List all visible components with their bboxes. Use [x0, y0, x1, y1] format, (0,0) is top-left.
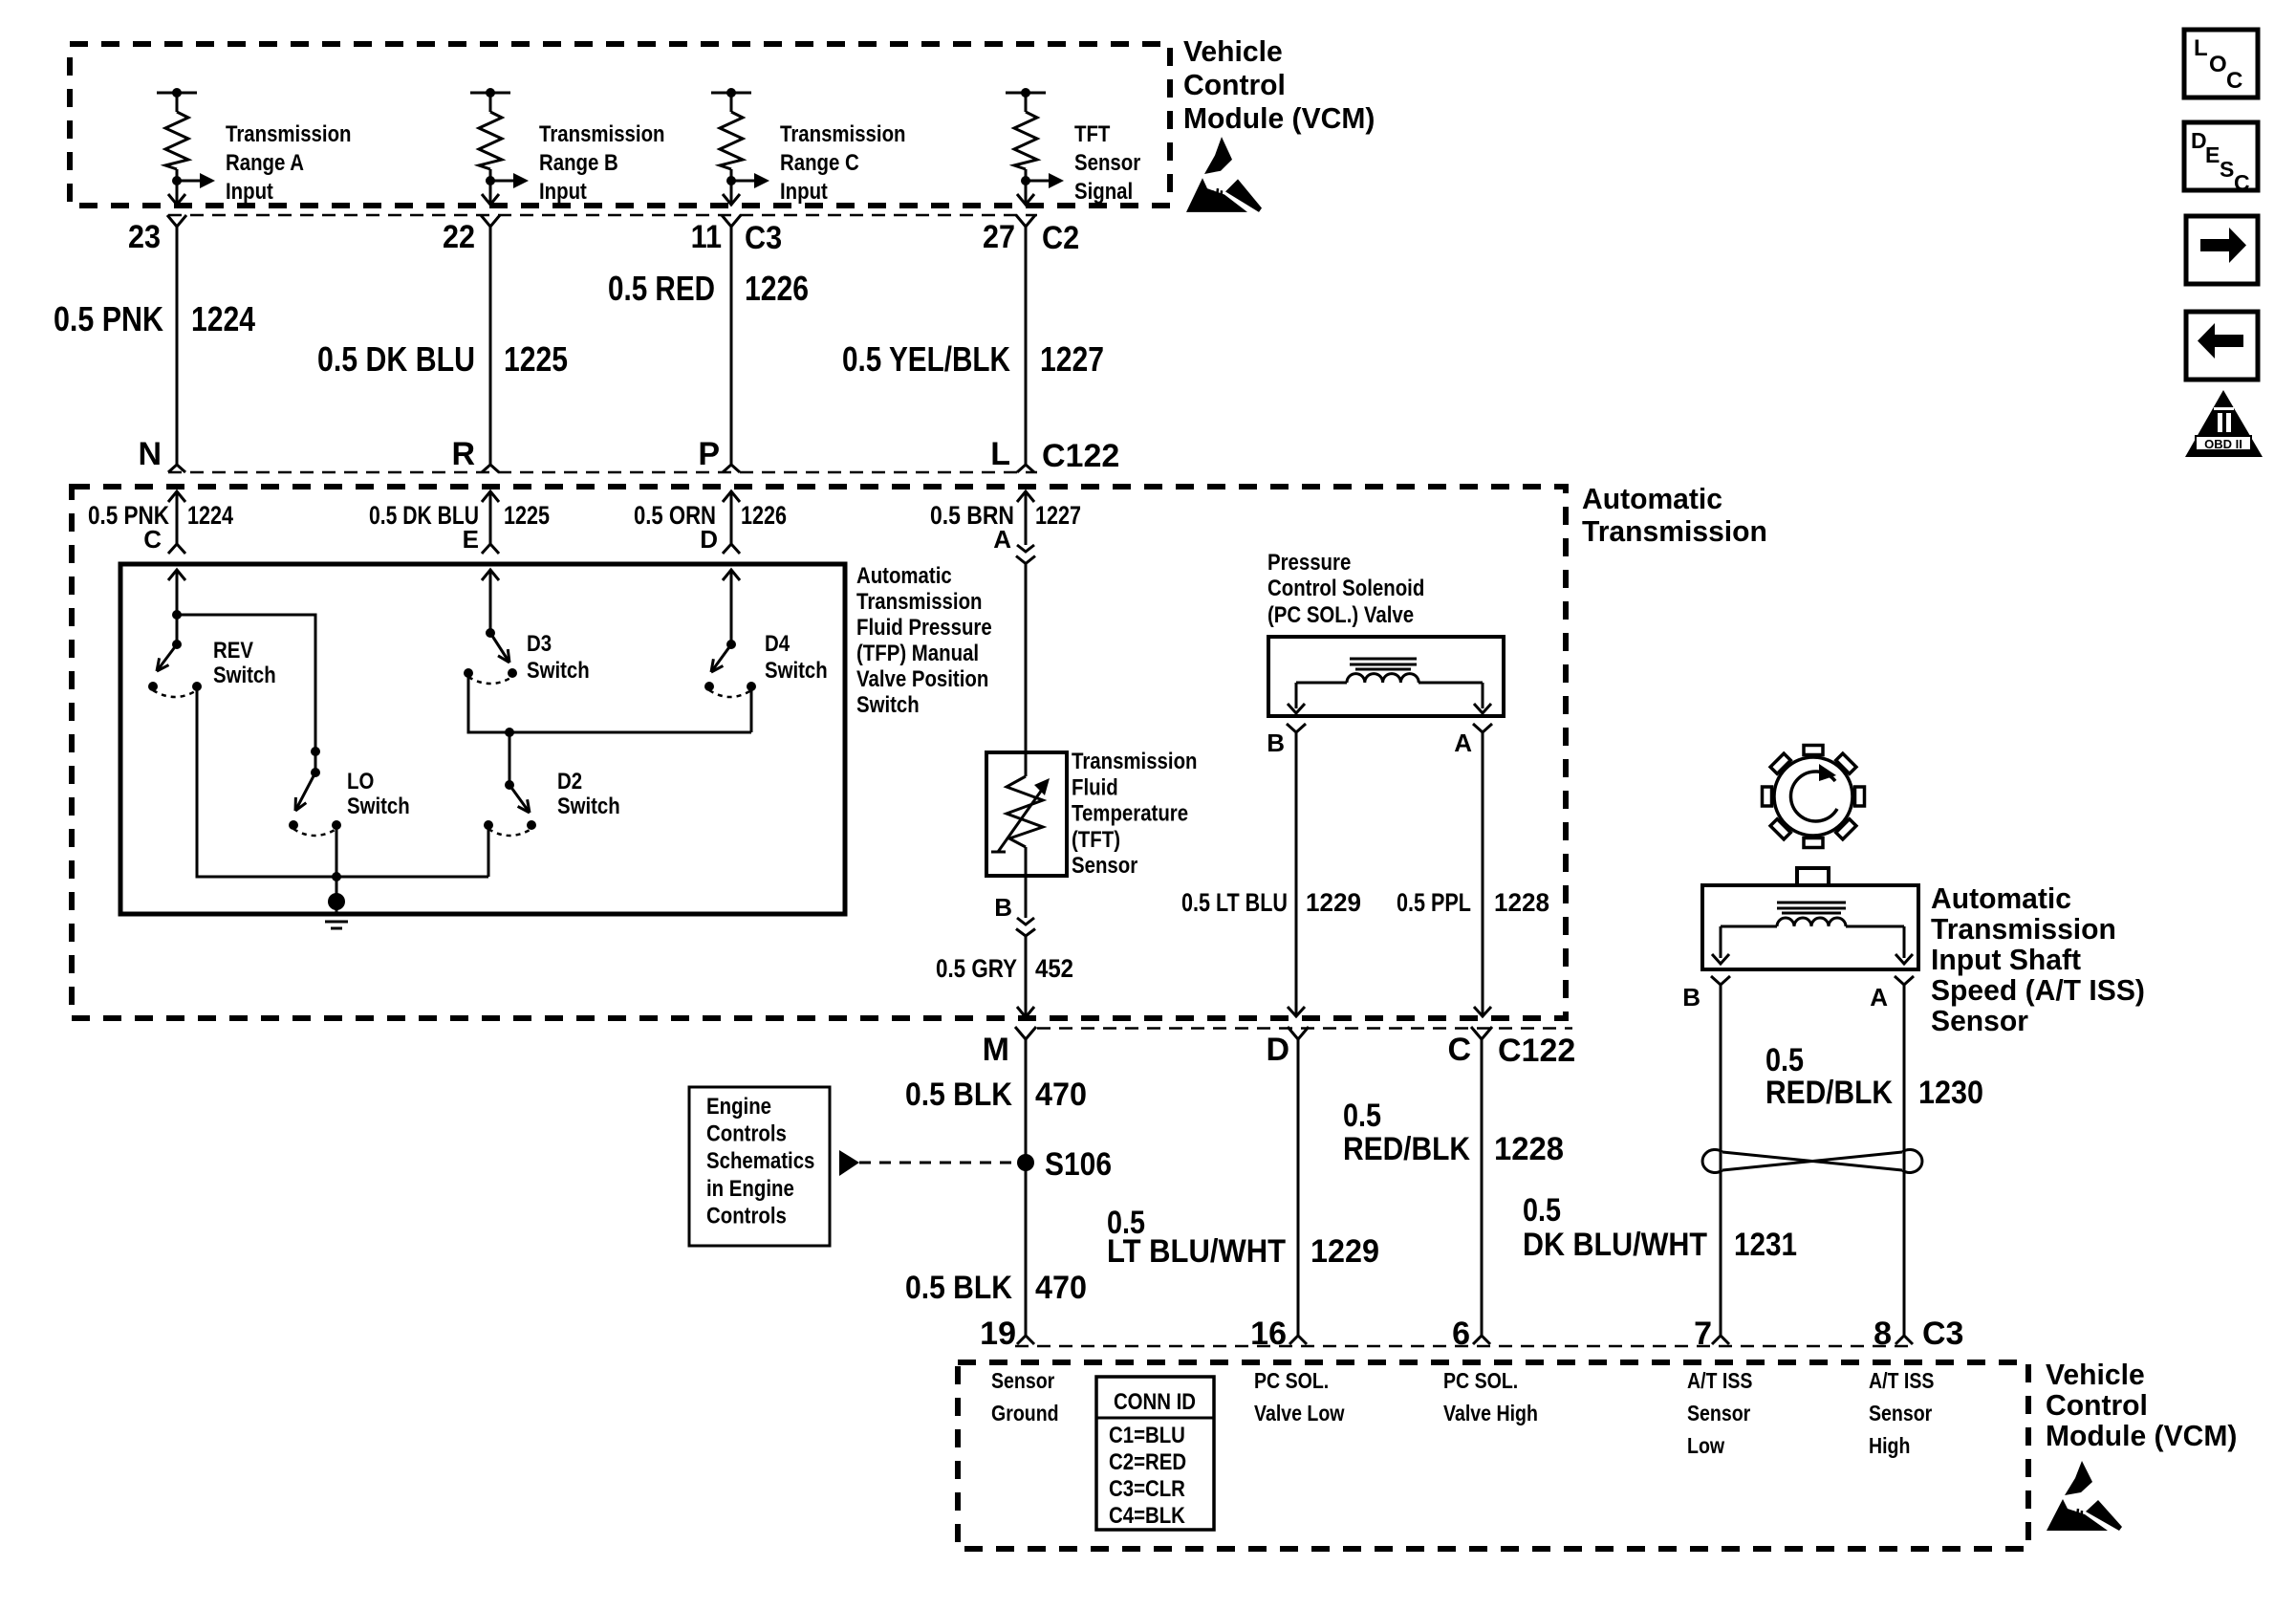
svg-text:0.5: 0.5: [1765, 1042, 1804, 1078]
reference arrow (Engine Controls): [839, 1150, 859, 1176]
connector spread at TFP switch box: [723, 544, 740, 554]
svg-text:Transmission: Transmission: [226, 121, 352, 147]
resistor: TFT Sensor Signal (VCM internal): [1006, 88, 1064, 205]
pin B of TFT sensor: [1025, 876, 1028, 918]
svg-text:1225: 1225: [504, 501, 550, 530]
icon: DESC box: [2184, 122, 2258, 195]
svg-text:Fluid: Fluid: [1072, 774, 1118, 800]
pin arrow at AT box bottom (M): [1017, 1007, 1034, 1017]
wire: LO common to ground: [336, 825, 338, 899]
ESD sensitivity triangle icon (bottom VCM): [2047, 1461, 2122, 1531]
svg-text:8: 8: [1874, 1316, 1892, 1352]
svg-text:1228: 1228: [1494, 888, 1549, 917]
pin B of PC solenoid: [1287, 724, 1306, 732]
wire circuit 1225 (VCM to C122): [489, 227, 492, 465]
svg-text:1230: 1230: [1918, 1075, 1983, 1111]
dashed reference lead to S106: [859, 1162, 1013, 1164]
switch LO: [289, 768, 341, 836]
svg-text:M: M: [983, 1032, 1009, 1068]
svg-text:DK BLU/WHT: DK BLU/WHT: [1523, 1227, 1707, 1263]
svg-text:Control Solenoid: Control Solenoid: [1267, 576, 1424, 601]
svg-text:Input Shaft: Input Shaft: [1931, 943, 2081, 976]
svg-text:D: D: [1266, 1032, 1289, 1068]
component box: Transmission Fluid Temperature (TFT) Sensor: [986, 752, 1067, 876]
svg-text:Transmission: Transmission: [1072, 749, 1198, 774]
svg-text:Input: Input: [539, 179, 587, 205]
svg-text:D4: D4: [765, 631, 791, 657]
svg-text:A: A: [1454, 729, 1472, 757]
svg-text:1225: 1225: [504, 339, 568, 379]
svg-text:1231: 1231: [1734, 1227, 1797, 1263]
wire: circuit 1227 to TFT sensor: [1025, 564, 1028, 753]
svg-text:Valve Low: Valve Low: [1254, 1401, 1345, 1425]
wire: circuit 470 (0.5 BLK) sensor ground: [1025, 1039, 1028, 1336]
svg-text:Pressure: Pressure: [1267, 550, 1351, 576]
svg-text:Input: Input: [226, 179, 273, 205]
svg-text:Sensor: Sensor: [1931, 1004, 2028, 1037]
svg-text:1224: 1224: [191, 299, 255, 338]
svg-text:Valve Position: Valve Position: [856, 666, 988, 692]
component box: Automatic Transmission Fluid Pressure (TFP) Manual Valve Position Switch: [120, 564, 845, 914]
connector spread at TFP switch box: [482, 544, 499, 554]
svg-text:P: P: [698, 436, 720, 472]
svg-text:Automatic: Automatic: [856, 563, 952, 589]
splice S106: [1017, 1154, 1034, 1171]
svg-text:Temperature: Temperature: [1072, 801, 1188, 827]
svg-text:22: 22: [443, 219, 475, 255]
connector pin arrow into AT box (C): [168, 491, 185, 502]
svg-text:C1=BLU: C1=BLU: [1109, 1423, 1185, 1448]
wire: D2 contact down to common bus: [487, 825, 490, 877]
svg-text:Transmission: Transmission: [1582, 514, 1767, 548]
svg-text:REV: REV: [213, 638, 253, 664]
wire: D4 contact down to bus: [750, 686, 753, 732]
wire: REV branch to LO switch: [177, 615, 315, 772]
svg-text:27: 27: [983, 219, 1015, 255]
wire: circuit 1231: [1903, 985, 1906, 1336]
resistor: Transmission Range B Input (VCM internal): [470, 88, 529, 205]
switch REV (pin C circuit): [148, 570, 202, 697]
svg-text:1226: 1226: [741, 501, 787, 530]
pickup coil (A/T ISS): [1712, 903, 1913, 964]
svg-text:Transmission: Transmission: [539, 121, 665, 147]
svg-text:1227: 1227: [1035, 501, 1081, 530]
gear icon (A/T ISS reluctor): [1763, 746, 1865, 848]
svg-text:C3=CLR: C3=CLR: [1109, 1476, 1185, 1502]
wire: circuit 1229 (0.5 LT BLU): [1295, 732, 1298, 1016]
svg-text:Range C: Range C: [780, 150, 859, 176]
svg-text:PC SOL.: PC SOL.: [1443, 1368, 1518, 1393]
svg-text:Switch: Switch: [527, 658, 590, 684]
svg-text:19: 19: [980, 1316, 1016, 1352]
connector pin 16 (VCM bottom): [1289, 1336, 1307, 1344]
svg-text:A/T ISS: A/T ISS: [1869, 1368, 1934, 1393]
connector pin M (C122 bottom): [1015, 1027, 1036, 1039]
pin A of PC solenoid: [1473, 724, 1492, 732]
svg-text:C2: C2: [1042, 220, 1079, 256]
connector pin arrow into AT box (E): [482, 491, 499, 502]
svg-text:Vehicle: Vehicle: [1183, 34, 1283, 68]
svg-text:LO: LO: [347, 769, 374, 794]
ESD sensitivity triangle icon (top VCM): [1186, 137, 1262, 212]
component box: Engine Controls reference: [689, 1087, 830, 1246]
wire: circuit 452 (0.5 GRY): [1025, 936, 1028, 1017]
svg-text:Module (VCM): Module (VCM): [2046, 1419, 2237, 1452]
svg-text:C3: C3: [745, 220, 782, 256]
svg-text:A: A: [1870, 983, 1888, 1012]
svg-text:A: A: [993, 525, 1011, 554]
svg-text:Sensor: Sensor: [1072, 853, 1137, 879]
component box: PC Solenoid Valve: [1268, 637, 1504, 716]
svg-text:0.5 RED: 0.5 RED: [608, 269, 715, 308]
svg-text:1224: 1224: [187, 501, 233, 530]
svg-text:0.5: 0.5: [1343, 1098, 1381, 1134]
svg-text:A/T ISS: A/T ISS: [1687, 1368, 1752, 1393]
svg-text:1228: 1228: [1494, 1131, 1564, 1167]
resistor: Transmission Range A Input (VCM internal): [157, 88, 215, 205]
wire: REV common down: [197, 686, 488, 877]
wire circuit 1227 (VCM to C122): [1025, 227, 1028, 465]
svg-text:Module (VCM): Module (VCM): [1183, 101, 1375, 135]
connector pin 11 (VCM): [722, 215, 741, 227]
svg-text:Controls: Controls: [706, 1121, 787, 1147]
wire: circuit 1229 (0.5 LT BLU/WHT): [1297, 1039, 1300, 1336]
wire: circuit 1228 (0.5 RED/BLK): [1481, 1039, 1484, 1336]
svg-text:Low: Low: [1687, 1433, 1724, 1458]
svg-text:(TFP) Manual: (TFP) Manual: [856, 641, 979, 666]
ground (TFP switch common): [319, 893, 354, 928]
svg-text:Sensor: Sensor: [1869, 1401, 1932, 1425]
svg-text:N: N: [138, 436, 162, 472]
svg-text:0.5 LT BLU: 0.5 LT BLU: [1181, 888, 1288, 917]
svg-text:(PC SOL.) Valve: (PC SOL.) Valve: [1267, 602, 1414, 628]
inline connector B (TFT): [1017, 918, 1034, 925]
svg-text:C122: C122: [1042, 438, 1119, 474]
svg-text:6: 6: [1452, 1316, 1470, 1352]
svg-text:Vehicle: Vehicle: [2046, 1358, 2145, 1391]
svg-text:C: C: [143, 525, 162, 554]
svg-text:S106: S106: [1045, 1146, 1112, 1183]
svg-text:Engine: Engine: [706, 1094, 771, 1120]
svg-text:Transmission: Transmission: [1931, 912, 2116, 946]
svg-text:C3: C3: [1922, 1316, 1963, 1352]
svg-text:(TFT): (TFT): [1072, 827, 1120, 853]
svg-text:D2: D2: [557, 769, 582, 794]
svg-text:Transmission: Transmission: [856, 589, 983, 615]
icon: forward arrow box: [2186, 216, 2258, 284]
svg-text:Control: Control: [1183, 68, 1286, 101]
svg-text:B: B: [1267, 729, 1285, 757]
connector pin C (C122 bottom): [1471, 1027, 1492, 1039]
connector pin 8 (VCM bottom): [1895, 1336, 1913, 1344]
svg-text:0.5 BLK: 0.5 BLK: [905, 1270, 1012, 1306]
svg-text:Fluid Pressure: Fluid Pressure: [856, 615, 992, 641]
connector pin 22 (VCM): [481, 215, 500, 227]
connector line C2/C3 (thin dashed): [168, 214, 1037, 217]
svg-text:D: D: [700, 525, 718, 554]
svg-text:Control: Control: [2046, 1388, 2148, 1422]
svg-text:0.5 PNK: 0.5 PNK: [54, 299, 163, 338]
wire circuit 1226 (VCM to C122): [730, 227, 733, 465]
pin B of A/T ISS sensor: [1711, 976, 1730, 985]
switch D4 (pin D circuit): [704, 570, 756, 697]
svg-text:0.5 DK BLU: 0.5 DK BLU: [317, 339, 475, 379]
svg-text:Speed (A/T ISS): Speed (A/T ISS): [1931, 973, 2145, 1007]
module box: Vehicle Control Module (VCM) top (dashed): [70, 44, 1170, 206]
connector line C122 bottom (thin dashed): [1037, 1027, 1572, 1030]
connector pin arrow into AT box (D): [723, 491, 740, 502]
connector pin L (C122): [1017, 465, 1034, 472]
svg-text:S: S: [2220, 157, 2234, 182]
wire: D3 contact to D2 bus: [468, 673, 751, 732]
svg-text:Switch: Switch: [347, 794, 410, 819]
icon: LOC box: [2184, 30, 2258, 98]
connector pin 23 (VCM): [167, 215, 186, 227]
svg-text:0.5 YEL/BLK: 0.5 YEL/BLK: [842, 339, 1010, 379]
svg-text:C122: C122: [1498, 1033, 1575, 1069]
svg-text:Range A: Range A: [226, 150, 304, 176]
icon: OBD II triangle: [2185, 390, 2263, 457]
svg-text:R: R: [451, 436, 475, 472]
svg-text:L: L: [2194, 35, 2208, 61]
svg-text:Signal: Signal: [1074, 179, 1133, 205]
connector pin R (C122): [482, 465, 499, 472]
svg-text:7: 7: [1694, 1316, 1712, 1352]
svg-text:0.5: 0.5: [1523, 1192, 1561, 1229]
svg-text:RED/BLK: RED/BLK: [1765, 1075, 1893, 1111]
connector pin 27 (VCM): [1016, 215, 1035, 227]
wire: circuit 1230 (0.5 RED/BLK): [1720, 985, 1722, 1336]
svg-text:PC SOL.: PC SOL.: [1254, 1368, 1329, 1393]
svg-text:11: 11: [691, 219, 722, 255]
svg-text:OBD II: OBD II: [2204, 437, 2242, 451]
svg-text:RED/BLK: RED/BLK: [1343, 1131, 1470, 1167]
svg-text:TFT: TFT: [1074, 121, 1111, 147]
svg-text:L: L: [990, 436, 1010, 472]
svg-text:1229: 1229: [1306, 888, 1361, 917]
component box: A/T ISS Sensor: [1702, 885, 1918, 969]
svg-text:C: C: [2234, 170, 2250, 195]
svg-text:Range B: Range B: [539, 150, 618, 176]
icon: back arrow box: [2186, 312, 2258, 380]
switch D3 (pin E circuit): [464, 570, 517, 684]
table: CONN ID: [1096, 1377, 1214, 1530]
svg-text:Sensor: Sensor: [1687, 1401, 1750, 1425]
svg-text:C: C: [1447, 1032, 1471, 1068]
svg-text:0.5 GRY: 0.5 GRY: [936, 954, 1017, 983]
twisted pair symbol (ISS wires): [1702, 1150, 1922, 1173]
connector pin 19 (VCM bottom): [1017, 1336, 1034, 1344]
svg-text:Switch: Switch: [856, 692, 920, 718]
svg-text:0.5 PPL: 0.5 PPL: [1397, 888, 1471, 917]
svg-text:Automatic: Automatic: [1582, 482, 1722, 515]
inline connector A (TFT sensor circuit): [1017, 545, 1034, 552]
svg-text:Sensor: Sensor: [1074, 150, 1140, 176]
svg-text:B: B: [994, 893, 1012, 922]
svg-text:Sensor: Sensor: [991, 1368, 1054, 1393]
svg-text:Switch: Switch: [213, 663, 276, 688]
thermistor symbol (TFT): [991, 752, 1050, 876]
connector pin D (C122 bottom): [1288, 1027, 1309, 1039]
svg-text:C2=RED: C2=RED: [1109, 1449, 1186, 1475]
svg-text:Input: Input: [780, 179, 828, 205]
shaft stub (A/T ISS): [1797, 868, 1829, 885]
connector pin arrow into AT box (A): [1017, 491, 1034, 502]
svg-text:0.5 BLK: 0.5 BLK: [905, 1077, 1012, 1113]
svg-text:C4=BLK: C4=BLK: [1109, 1503, 1185, 1529]
connector pin 7 (VCM bottom): [1712, 1336, 1729, 1344]
svg-text:LT BLU/WHT: LT BLU/WHT: [1107, 1233, 1286, 1270]
svg-text:in Engine: in Engine: [706, 1176, 794, 1202]
svg-text:E: E: [2205, 142, 2220, 167]
wire: circuit 1228 (0.5 PPL): [1482, 732, 1484, 1016]
svg-text:B: B: [1682, 983, 1700, 1012]
connector pin N (C122): [168, 465, 185, 472]
svg-text:1227: 1227: [1040, 339, 1104, 379]
module box: Automatic Transmission (dashed): [72, 487, 1566, 1018]
svg-text:Transmission: Transmission: [780, 121, 906, 147]
svg-text:1226: 1226: [745, 269, 809, 308]
svg-text:D3: D3: [527, 631, 552, 657]
connector pin P (C122): [723, 465, 740, 472]
svg-text:Switch: Switch: [557, 794, 620, 819]
svg-text:Controls: Controls: [706, 1203, 787, 1229]
svg-text:High: High: [1869, 1433, 1910, 1458]
svg-text:1229: 1229: [1310, 1233, 1379, 1270]
resistor: Transmission Range C Input (VCM internal): [711, 88, 769, 205]
connector line C122 (thin dashed): [168, 471, 1037, 474]
svg-text:23: 23: [128, 219, 161, 255]
switch D2: [484, 732, 536, 836]
pin A of A/T ISS sensor: [1895, 976, 1914, 985]
svg-text:C: C: [2226, 68, 2242, 94]
svg-text:Valve High: Valve High: [1443, 1401, 1538, 1425]
svg-text:452: 452: [1035, 954, 1073, 983]
svg-text:Automatic: Automatic: [1931, 881, 2071, 915]
connector spread at TFP switch box: [168, 544, 185, 554]
svg-text:Switch: Switch: [765, 658, 828, 684]
svg-text:E: E: [463, 525, 479, 554]
svg-text:Ground: Ground: [991, 1401, 1059, 1425]
svg-text:O: O: [2209, 52, 2227, 77]
svg-text:470: 470: [1035, 1077, 1087, 1113]
module box: Vehicle Control Module (VCM) bottom (dashed): [958, 1362, 2028, 1549]
connector pin 6 (VCM bottom): [1473, 1336, 1490, 1344]
solenoid coil (PC SOL.): [1288, 659, 1491, 713]
svg-text:470: 470: [1035, 1270, 1087, 1306]
svg-text:Schematics: Schematics: [706, 1148, 814, 1174]
connector line C3 bottom (thin dashed): [1015, 1345, 1916, 1348]
wire circuit 1224 (VCM to C122): [176, 227, 179, 465]
svg-text:CONN ID: CONN ID: [1114, 1389, 1196, 1415]
svg-text:16: 16: [1250, 1316, 1287, 1352]
